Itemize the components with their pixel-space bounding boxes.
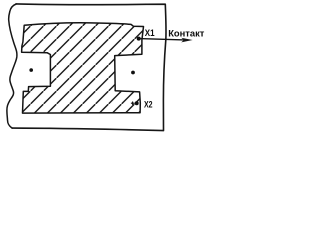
plus mark at X2 xyxy=(131,102,134,105)
node: left recess contact dot xyxy=(29,68,33,72)
hatched body (cross-section of part with side recesses) xyxy=(22,23,144,113)
node X1 junction dot xyxy=(137,37,141,41)
svg-text:Контакт: Контакт xyxy=(168,29,204,40)
node: right recess contact dot xyxy=(131,71,135,75)
wire: arrow from X1 to Контакт xyxy=(139,39,184,40)
break line (wavy left edge of panel) xyxy=(7,4,17,128)
border frame (top, right, bottom edges of cut-out panel) xyxy=(12,4,166,131)
svg-text:X2: X2 xyxy=(144,99,153,110)
svg-text:X1: X1 xyxy=(145,28,155,39)
node X2 junction dot xyxy=(135,101,139,105)
arrowhead xyxy=(181,38,192,43)
